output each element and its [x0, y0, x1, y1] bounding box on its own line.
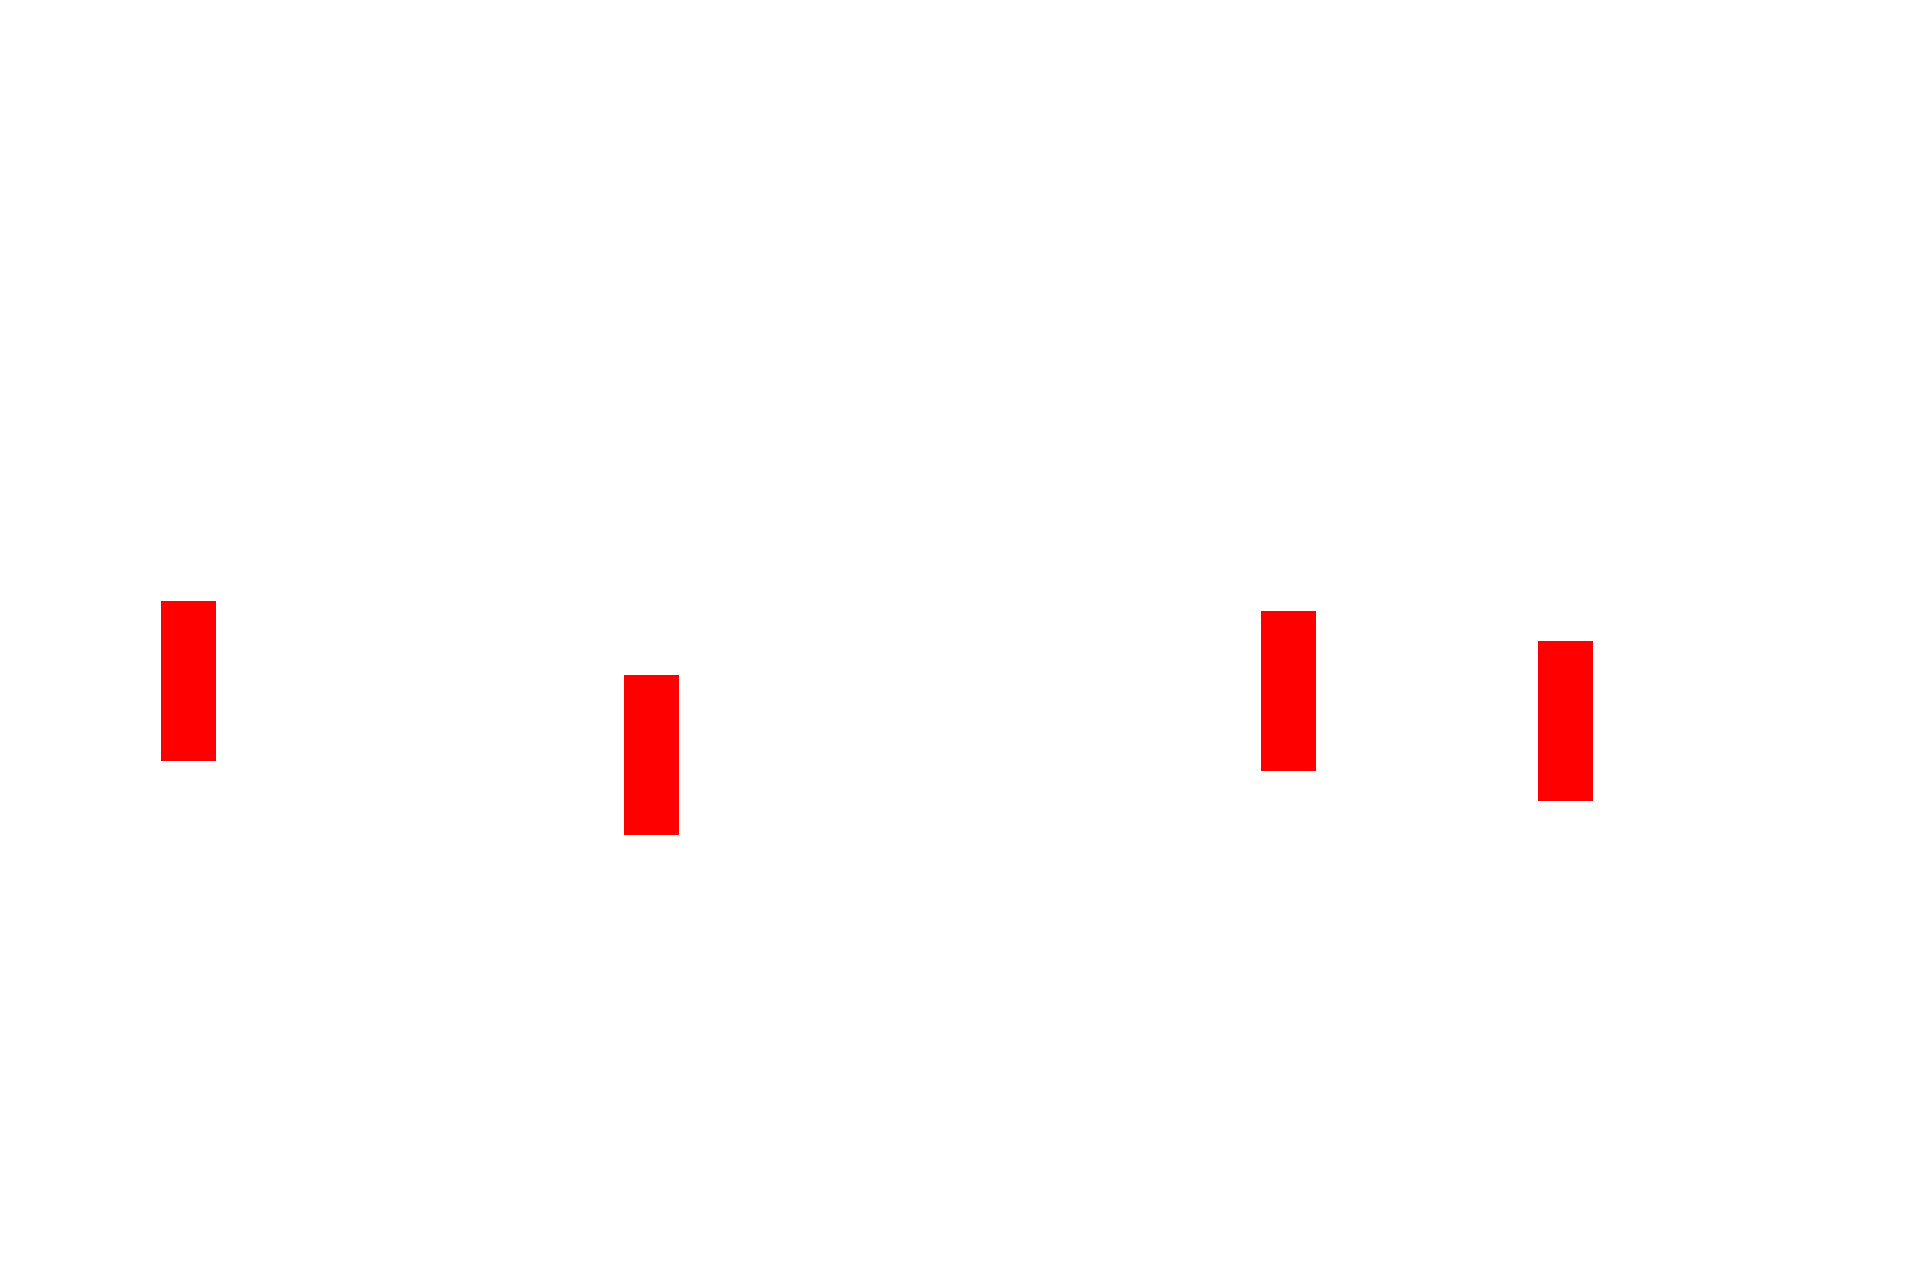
red candle bar 1 [161, 601, 216, 761]
red candle bar 4 [1538, 641, 1593, 801]
red candle bar 3 [1261, 611, 1316, 771]
red candle bar 2 [624, 675, 679, 835]
